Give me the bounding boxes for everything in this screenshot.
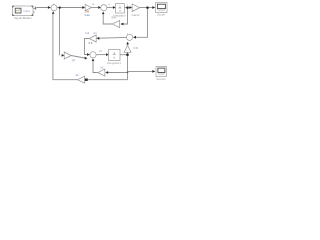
svg-text:+: + (53, 2, 55, 6)
svg-text:Gain2: Gain2 (132, 13, 140, 17)
svg-text:v1: v1 (99, 49, 102, 53)
svg-text:Gain: Gain (85, 13, 91, 17)
svg-text:k2: k2 (101, 65, 104, 69)
svg-text:1/M: 1/M (85, 10, 90, 14)
svg-text:Input: Input (23, 9, 29, 13)
svg-text:dot: dot (93, 31, 97, 35)
svg-text:Scope1: Scope1 (156, 77, 166, 81)
svg-text:0.5: 0.5 (89, 41, 93, 45)
svg-text:B/M: B/M (112, 15, 118, 19)
svg-text:Integrator1: Integrator1 (107, 61, 121, 65)
svg-text:x1d: x1d (85, 31, 90, 35)
svg-text:K/M: K/M (134, 46, 140, 50)
svg-text:Signal Builder: Signal Builder (14, 16, 32, 20)
svg-text:g1: g1 (72, 58, 75, 62)
svg-text:Scope: Scope (157, 12, 165, 16)
svg-text:+: + (127, 31, 129, 35)
svg-text:+: + (108, 3, 110, 7)
svg-text:k1: k1 (76, 73, 79, 77)
